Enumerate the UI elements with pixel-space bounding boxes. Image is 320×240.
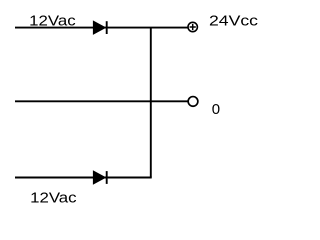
- wire: bottom AC input line: [15, 177, 152, 179]
- wire: middle line (center tap) to 0 terminal: [15, 100, 188, 102]
- terminal 0 (open circle): [188, 97, 198, 107]
- wire: top AC input line to +24Vcc terminal: [15, 27, 188, 29]
- wire: vertical bus joining both diode cathodes: [150, 28, 152, 178]
- svg-text:12Vac: 12Vac: [29, 12, 76, 29]
- terminal +24Vcc (circle with plus): [188, 22, 197, 31]
- diode D2 (bottom rectifier): [93, 171, 106, 184]
- svg-text:24Vcc: 24Vcc: [209, 13, 259, 30]
- svg-text:12Vac: 12Vac: [30, 189, 77, 206]
- svg-text:0: 0: [212, 101, 220, 118]
- diode D1 (top rectifier): [93, 21, 106, 34]
